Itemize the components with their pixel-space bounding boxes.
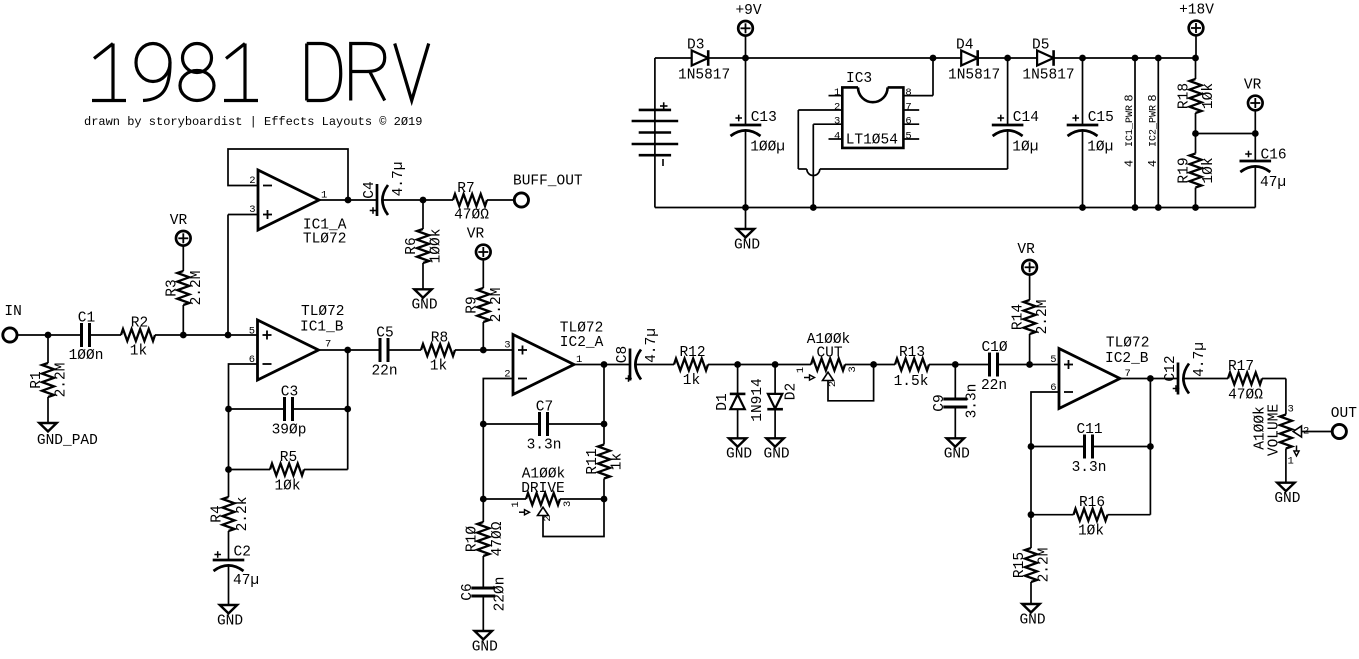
resistor R17 (1228, 373, 1262, 385)
svg-text:4.7µ: 4.7µ (1192, 342, 1208, 377)
svg-text:1k: 1k (610, 453, 626, 470)
svg-text:6: 6 (905, 116, 911, 128)
wire R2 to IC1_B (155, 334, 258, 336)
resistor R19 (1195, 134, 1197, 154)
svg-text:IN: IN (4, 304, 21, 320)
svg-text:C6: C6 (460, 583, 476, 600)
svg-text:R12: R12 (679, 345, 705, 361)
svg-text:1Øk: 1Øk (1201, 157, 1217, 183)
svg-text:1k: 1k (683, 373, 700, 389)
junction C7 right node (601, 421, 608, 428)
svg-text:IC1_PWR: IC1_PWR (1125, 105, 1136, 147)
svg-text:4.7µ: 4.7µ (644, 328, 660, 363)
svg-text:1Øk: 1Øk (1078, 524, 1104, 540)
svg-text:1ØØµ: 1ØØµ (750, 140, 785, 156)
junction C13 ground node (742, 204, 749, 211)
ground GND VOLUME (1277, 483, 1294, 491)
ground GND R6 (414, 289, 431, 297)
svg-text:VR: VR (170, 213, 188, 229)
junction C15 ground node (1079, 204, 1086, 211)
svg-text:1: 1 (510, 501, 522, 507)
svg-text:3.3n: 3.3n (1072, 460, 1107, 476)
junction +18V R18 node (1192, 55, 1199, 62)
wire IC1_B inverting input (229, 364, 258, 497)
capacitor C14 (1007, 58, 1009, 125)
capacitor C3 (229, 408, 285, 410)
svg-text:VR: VR (467, 227, 485, 243)
resistor R4 (223, 497, 235, 531)
ground GND_PAD (39, 423, 56, 431)
svg-text:3: 3 (1288, 404, 1294, 416)
svg-text:R1: R1 (29, 371, 45, 388)
junction D1 node (734, 361, 741, 368)
power port VR for R14 (1022, 260, 1037, 275)
svg-text:GND: GND (726, 447, 752, 463)
wire branch up to IC1_A pin3 (227, 215, 229, 336)
svg-text:IC1_B: IC1_B (300, 320, 344, 336)
svg-text:D3: D3 (687, 37, 704, 53)
svg-text:GND: GND (411, 298, 437, 314)
svg-text:CUT: CUT (816, 346, 842, 362)
svg-text:+18V: +18V (1179, 3, 1214, 19)
power port +9V (738, 21, 753, 36)
wire C12 to R17 (1184, 378, 1229, 380)
pin stubs IC3 left (829, 95, 843, 97)
junction IC1_B output node (344, 347, 351, 354)
svg-text:R16: R16 (1079, 495, 1105, 511)
wire output right column (1149, 379, 1151, 515)
junction CUT wiper node (870, 361, 877, 368)
junction IC2_A output node (601, 361, 608, 368)
svg-text:C9: C9 (932, 394, 948, 411)
resistor R13 (895, 359, 929, 371)
wire IC2_B output row (1120, 378, 1178, 380)
wire feedback right column (347, 350, 349, 470)
svg-text:GND: GND (472, 639, 498, 655)
junction R6 node (420, 197, 427, 204)
wire IC1_A output (319, 199, 377, 201)
wire C8 to R12 (636, 364, 675, 366)
svg-text:VR: VR (1244, 78, 1262, 94)
wire IC3 pin3 to ground bus (813, 123, 842, 125)
svg-text:3.3n: 3.3n (964, 384, 980, 419)
svg-text:GND: GND (764, 447, 790, 463)
svg-text:R11: R11 (585, 448, 601, 474)
ground GND D2 (766, 438, 783, 446)
svg-text:3: 3 (834, 116, 840, 128)
svg-text:1Øµ: 1Øµ (1012, 140, 1038, 156)
svg-text:R4: R4 (210, 505, 226, 522)
wire IC1_B output row (319, 349, 381, 351)
wire IC2_B inverting input (1031, 392, 1059, 548)
svg-text:22n: 22n (981, 378, 1007, 394)
diode D1 (737, 365, 739, 394)
svg-text:BUFF_OUT: BUFF_OUT (513, 174, 583, 190)
svg-text:R19: R19 (1177, 157, 1193, 183)
capacitor C1 (80, 323, 83, 347)
op-amp IC2_A (513, 335, 574, 395)
wire R13 to C10 (929, 364, 990, 366)
junction pin3 ground node (810, 204, 817, 211)
ground GND C9 (947, 438, 964, 446)
svg-text:C5: C5 (376, 326, 393, 342)
resistor R15 (1025, 548, 1037, 582)
svg-text:47µ: 47µ (1260, 175, 1286, 191)
capacitor C6 (471, 587, 495, 590)
svg-text:IC3: IC3 (846, 71, 872, 87)
svg-text:C3: C3 (281, 385, 298, 401)
svg-text:GND_PAD: GND_PAD (37, 433, 98, 449)
svg-text:R17: R17 (1228, 359, 1254, 375)
svg-text:2.2M: 2.2M (1035, 300, 1051, 335)
svg-text:8: 8 (1146, 94, 1160, 101)
svg-text:1: 1 (795, 367, 807, 373)
svg-text:7: 7 (325, 339, 331, 351)
svg-text:1ØØn: 1ØØn (69, 348, 104, 364)
svg-text:2.2M: 2.2M (54, 363, 70, 398)
svg-text:R13: R13 (899, 345, 925, 361)
resistor R1 (47, 335, 49, 363)
wire R7 to BUFF_OUT (487, 199, 514, 201)
wire C4 to R7 (383, 199, 454, 201)
terminal OUT (1332, 424, 1346, 438)
capacitor C8 (629, 349, 632, 381)
svg-text:2: 2 (827, 381, 839, 387)
svg-text:C1Ø: C1Ø (981, 340, 1007, 356)
wire C10 to IC2_B (998, 364, 1060, 366)
resistor R2 (121, 329, 155, 341)
svg-text:2: 2 (1303, 426, 1309, 438)
junction D5 C15 node (1079, 55, 1086, 62)
svg-text:C2: C2 (234, 545, 251, 561)
svg-text:GND: GND (1019, 612, 1045, 628)
svg-text:3.3n: 3.3n (527, 438, 562, 454)
svg-text:47µ: 47µ (233, 573, 259, 589)
junction VR divider node (1192, 130, 1199, 137)
junction IC2_B output node (1147, 375, 1154, 382)
wire C5 to R8 (388, 349, 421, 351)
svg-text:C8: C8 (615, 346, 631, 363)
svg-text:1Øk: 1Øk (274, 479, 300, 495)
svg-text:C1: C1 (78, 311, 95, 327)
junction R9 node (480, 347, 487, 354)
wire bottom ground bus (655, 207, 1255, 209)
svg-text:C13: C13 (751, 110, 777, 126)
svg-text:VOLUME: VOLUME (1267, 404, 1283, 456)
svg-text:2: 2 (542, 515, 554, 521)
svg-text:C7: C7 (536, 400, 553, 416)
svg-text:3: 3 (249, 204, 255, 216)
svg-text:R2: R2 (131, 315, 148, 331)
wire R17 to VOLUME pot (1262, 378, 1286, 380)
svg-text:1N5817: 1N5817 (948, 68, 1000, 84)
wire IN to C1 (17, 334, 82, 336)
junction D2 node (772, 361, 779, 368)
svg-text:C15: C15 (1088, 110, 1114, 126)
svg-text:1Øµ: 1Øµ (1087, 140, 1113, 156)
svg-text:1N5817: 1N5817 (1022, 68, 1074, 84)
wire R8 to IC2_A (455, 349, 513, 351)
svg-text:R7: R7 (457, 181, 474, 197)
svg-text:47ØΩ: 47ØΩ (1228, 388, 1263, 404)
net IC2_PWR rail (1157, 58, 1159, 208)
svg-text:D1: D1 (715, 393, 731, 410)
diode D2 (774, 365, 776, 394)
potentiometer RV3 VOLUME (1280, 415, 1292, 449)
junction +9V node (742, 55, 749, 62)
svg-text:C4: C4 (362, 181, 378, 198)
wire +9V to bus (745, 36, 747, 58)
resistor R16 (1074, 509, 1108, 521)
ground GND C2 (220, 605, 237, 613)
pin stubs IC3 right (903, 109, 919, 111)
resistor R6 (422, 200, 424, 229)
svg-text:D4: D4 (956, 37, 973, 53)
diode D3 (692, 51, 709, 66)
power port VR for R9 (476, 245, 491, 260)
terminal BUFF_OUT (514, 193, 528, 207)
svg-text:3: 3 (847, 366, 859, 372)
junction C9 node (952, 361, 959, 368)
wire divider to VR and C16 (1196, 133, 1256, 135)
wire output column down (603, 365, 605, 445)
junction C3 right node (344, 406, 351, 413)
svg-text:R3: R3 (164, 279, 180, 296)
svg-text:TLØ72: TLØ72 (301, 304, 345, 320)
capacitor C15 (1082, 58, 1084, 125)
svg-text:1: 1 (834, 87, 840, 99)
junction C11 right node (1147, 443, 1154, 450)
svg-text:R18: R18 (1177, 83, 1193, 109)
svg-text:TLØ72: TLØ72 (303, 232, 347, 248)
capacitor C12 (1177, 363, 1180, 395)
resistor R14 (1029, 275, 1031, 300)
op-amp IC3 LT1054 body (842, 87, 903, 147)
terminal IN (3, 328, 17, 342)
power port VR for R3 (176, 231, 191, 246)
junction C3 left node (225, 406, 232, 413)
title 1981 DRV (94, 44, 113, 59)
junction D4 C14 node (1004, 55, 1011, 62)
svg-text:8: 8 (905, 87, 911, 99)
ground GND C6 (475, 631, 492, 639)
capacitor C4 (376, 184, 379, 216)
resistor R11 (598, 445, 610, 479)
net IC1_PWR rail (1134, 58, 1136, 208)
svg-text:2.2k: 2.2k (235, 497, 251, 532)
svg-text:22Øn: 22Øn (492, 577, 508, 612)
capacitor C11 (1031, 446, 1085, 448)
capacitor C7 (483, 423, 539, 425)
ground GND R15 (1022, 604, 1039, 612)
svg-text:4.7µ: 4.7µ (391, 162, 407, 197)
svg-text:IC2_A: IC2_A (560, 335, 604, 351)
svg-text:GND: GND (1274, 491, 1300, 507)
battery BT1 (654, 58, 656, 208)
junction R1 node (45, 332, 52, 339)
svg-text:R15: R15 (1012, 552, 1028, 578)
svg-text:R8: R8 (431, 330, 448, 346)
svg-text:IC2_PWR: IC2_PWR (1149, 105, 1160, 147)
wire IC3 pin8 to bus (903, 95, 933, 97)
wire IC3 pin2 to C14 bottom with hop (798, 109, 842, 111)
svg-text:drawn by storyboardist | Effec: drawn by storyboardist | Effects Layouts… (84, 115, 422, 129)
resistor R8 (421, 344, 455, 356)
potentiometer RV2 CUT (811, 359, 845, 371)
junction IC1_A output node (345, 197, 352, 204)
svg-text:IC2_B: IC2_B (1105, 351, 1149, 367)
resistor R12 (674, 359, 708, 371)
capacitor C13 (745, 58, 747, 125)
svg-text:39Øp: 39Øp (272, 423, 307, 439)
svg-text:R14: R14 (1011, 304, 1027, 330)
svg-text:2.2M: 2.2M (489, 288, 505, 323)
junction DRIVE right node (601, 496, 608, 503)
junction DRIVE left node (480, 496, 487, 503)
resistor R5 (229, 469, 271, 471)
svg-text:2.2M: 2.2M (1037, 548, 1053, 583)
svg-text:1k: 1k (130, 344, 147, 360)
diode D5 (1037, 51, 1054, 66)
potentiometer RV1 DRIVE (483, 498, 526, 500)
svg-text:C11: C11 (1076, 422, 1102, 438)
junction R3 node (180, 332, 187, 339)
resistor R10 (477, 522, 489, 556)
diode D4 (961, 51, 978, 66)
ground GND power (745, 208, 747, 230)
svg-text:5: 5 (905, 130, 911, 142)
svg-text:VR: VR (1017, 242, 1035, 258)
svg-text:C12: C12 (1163, 355, 1179, 381)
svg-text:1k: 1k (430, 359, 447, 375)
svg-text:GND: GND (944, 447, 970, 463)
junction C7 left node (480, 421, 487, 428)
svg-text:22n: 22n (371, 364, 397, 380)
power port VR top right (1248, 96, 1263, 111)
svg-text:8: 8 (1123, 94, 1137, 101)
resistor R9 (482, 259, 484, 288)
wire IC2_A inverting input (483, 379, 513, 523)
svg-text:+9V: +9V (735, 3, 761, 19)
svg-text:D5: D5 (1032, 37, 1049, 53)
svg-text:47ØΩ: 47ØΩ (490, 521, 506, 556)
svg-text:5: 5 (249, 325, 255, 337)
svg-text:R6: R6 (404, 237, 420, 254)
junction IC1_A branch node (225, 332, 232, 339)
op-amp IC1_A (258, 170, 319, 230)
svg-text:2.2M: 2.2M (189, 271, 205, 306)
svg-text:R5: R5 (280, 450, 297, 466)
svg-text:R1Ø: R1Ø (464, 526, 480, 552)
power port +18V (1189, 21, 1204, 36)
svg-text:7: 7 (905, 101, 911, 113)
svg-text:TLØ72: TLØ72 (1106, 336, 1150, 352)
wire top power bus (655, 57, 692, 59)
resistor R7 (453, 194, 487, 206)
op-amp IC1_B (258, 320, 319, 380)
capacitor C2 (213, 559, 245, 562)
junction R14 node (1026, 361, 1033, 368)
svg-text:47ØΩ: 47ØΩ (454, 208, 489, 224)
svg-text:OUT: OUT (1331, 406, 1357, 422)
wire CUT to R13 (845, 364, 895, 366)
resistor R18 (1195, 58, 1197, 79)
svg-text:3: 3 (504, 340, 510, 352)
wire R12 to CUT pot (708, 364, 811, 366)
capacitor C9 (954, 365, 956, 400)
resistor R3 (182, 246, 184, 271)
ground GND D1 (729, 438, 746, 446)
svg-text:LT1Ø54: LT1Ø54 (846, 133, 898, 149)
capacitor C10 (988, 353, 991, 377)
junction pin8 node (930, 55, 937, 62)
svg-text:4: 4 (1123, 160, 1137, 167)
svg-text:1N5817: 1N5817 (678, 68, 730, 84)
junction R16 left node (1028, 511, 1035, 518)
svg-text:R9: R9 (464, 296, 480, 313)
svg-text:2: 2 (834, 101, 840, 113)
svg-text:DRIVE: DRIVE (521, 481, 565, 497)
junction C11 left node (1028, 443, 1035, 450)
svg-text:1.5k: 1.5k (894, 374, 929, 390)
svg-text:3: 3 (562, 501, 574, 507)
wire IC1_A feedback loop (228, 149, 348, 200)
svg-text:C16: C16 (1261, 148, 1287, 164)
svg-text:4: 4 (834, 130, 840, 142)
svg-text:1: 1 (1288, 455, 1294, 467)
svg-text:GND: GND (734, 237, 760, 253)
svg-text:1Øk: 1Øk (1201, 83, 1217, 109)
capacitor C16 (1254, 134, 1256, 162)
svg-text:5: 5 (1050, 354, 1056, 366)
wire +18V to bus (1195, 35, 1197, 58)
svg-text:4: 4 (1146, 160, 1160, 167)
junction R19 ground node (1192, 204, 1199, 211)
capacitor C5 (379, 338, 382, 362)
svg-text:C14: C14 (1013, 110, 1039, 126)
svg-text:D2: D2 (783, 383, 799, 400)
op-amp IC2_B (1059, 349, 1120, 409)
svg-text:1ØØk: 1ØØk (429, 229, 445, 264)
svg-text:1N914: 1N914 (750, 378, 766, 422)
wire C1 to R2 (90, 334, 122, 336)
junction R5 left node (225, 466, 232, 473)
wire IC2_A output row (574, 364, 630, 366)
svg-text:GND: GND (217, 613, 243, 629)
